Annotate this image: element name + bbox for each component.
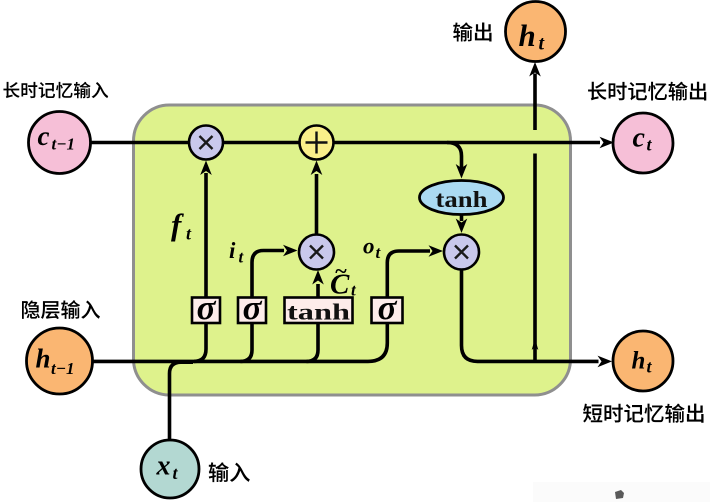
wire: i-gate branch through sigma-2 to multiply-2 <box>241 251 285 362</box>
label: input (Chinese, bottom) <box>209 462 250 482</box>
gate box: sigma-2 (input gate) <box>238 288 266 327</box>
terminal: h_t output circle top <box>506 2 566 62</box>
arrowhead into add node bottom <box>311 161 323 176</box>
svg-text:x: x <box>156 451 171 482</box>
wire: f-gate branch up through sigma-1 to multiply-1 <box>194 173 206 361</box>
arrowhead into multiply-1 bottom <box>200 161 212 176</box>
arrowhead into c_t <box>600 137 615 149</box>
svg-text:σ: σ <box>378 288 398 327</box>
arrowhead into multiply-3 left <box>429 245 444 257</box>
label: f_t <box>171 207 192 244</box>
label: hidden layer input (Chinese) <box>22 300 100 319</box>
wire: candidate branch through tanh box to multiply-2 <box>307 284 319 361</box>
wire: multiply-2 up to add node <box>315 174 319 236</box>
arrowhead into multiply-2 bottom <box>312 270 324 285</box>
arrowhead into multiply-3 top <box>456 219 468 234</box>
label: short-term memory output (Chinese) <box>583 404 703 423</box>
label: long-term memory output (Chinese) <box>588 82 706 101</box>
label: i_t <box>229 238 245 267</box>
svg-text:t−1: t−1 <box>51 359 75 378</box>
svg-text:h: h <box>632 348 646 375</box>
terminal: h_{t-1} hidden input circle <box>27 328 93 394</box>
gate box: sigma-1 (forget gate) <box>192 288 220 327</box>
svg-text:h: h <box>36 344 51 374</box>
node: tanh ellipse <box>420 181 504 215</box>
svg-text:i: i <box>229 238 236 263</box>
terminal: x_t input circle <box>141 440 199 498</box>
terminal: h_t output circle right <box>613 331 673 391</box>
svg-text:h: h <box>519 18 536 53</box>
node: multiply-3 (output gate product) <box>444 235 479 270</box>
wire: x_t input up to bottom line <box>170 362 194 440</box>
svg-text:σ: σ <box>197 288 217 327</box>
label: C-tilde_t candidate <box>330 258 357 301</box>
svg-text:~: ~ <box>335 258 348 283</box>
svg-text:σ: σ <box>243 288 263 327</box>
label: o_t <box>363 234 382 263</box>
gate box: sigma-3 (output gate) <box>372 288 403 327</box>
node: add (cell state update) <box>300 126 334 160</box>
wire: cell-state line c_{t-1} to c_t <box>91 141 600 145</box>
svg-text:t−1: t−1 <box>52 135 76 154</box>
LSTM cell body (green rounded box) <box>134 105 571 395</box>
wire: bottom input line with o-gate branch through sigma-3 to multiply-3 <box>93 251 430 361</box>
svg-text:tanh: tanh <box>287 300 350 325</box>
label: output (Chinese, top) <box>453 22 491 41</box>
terminal: c_t cell state output circle <box>613 113 673 173</box>
terminal: c_{t-1} cell state input circle <box>29 112 91 174</box>
gate box: tanh (candidate) <box>285 298 353 325</box>
label: long-term memory input (Chinese) <box>3 82 108 99</box>
arrowhead into multiply-2 left <box>283 245 298 257</box>
svg-text:c: c <box>633 123 646 154</box>
wire: tanh ellipse to multiply-3 <box>460 215 464 222</box>
svg-text:tanh: tanh <box>436 187 488 213</box>
node: multiply-1 (forget gate product) <box>189 126 223 160</box>
small arrowhead tick on hidden branch <box>532 339 539 351</box>
wire: branch from c-line down to tanh ellipse <box>447 143 462 169</box>
svg-text:o: o <box>363 234 375 259</box>
arrowhead into h_t right <box>598 356 613 368</box>
wire: multiply-3 output down and right to h_t <box>462 270 599 361</box>
wire: hidden output branch up to h_t top <box>533 74 537 361</box>
arrowhead into tanh ellipse top <box>456 164 468 179</box>
svg-text:c: c <box>38 121 50 151</box>
node: multiply-2 (input gate product) <box>299 235 334 270</box>
arrowhead into h_t top <box>529 62 541 77</box>
watermark speck <box>533 482 710 502</box>
